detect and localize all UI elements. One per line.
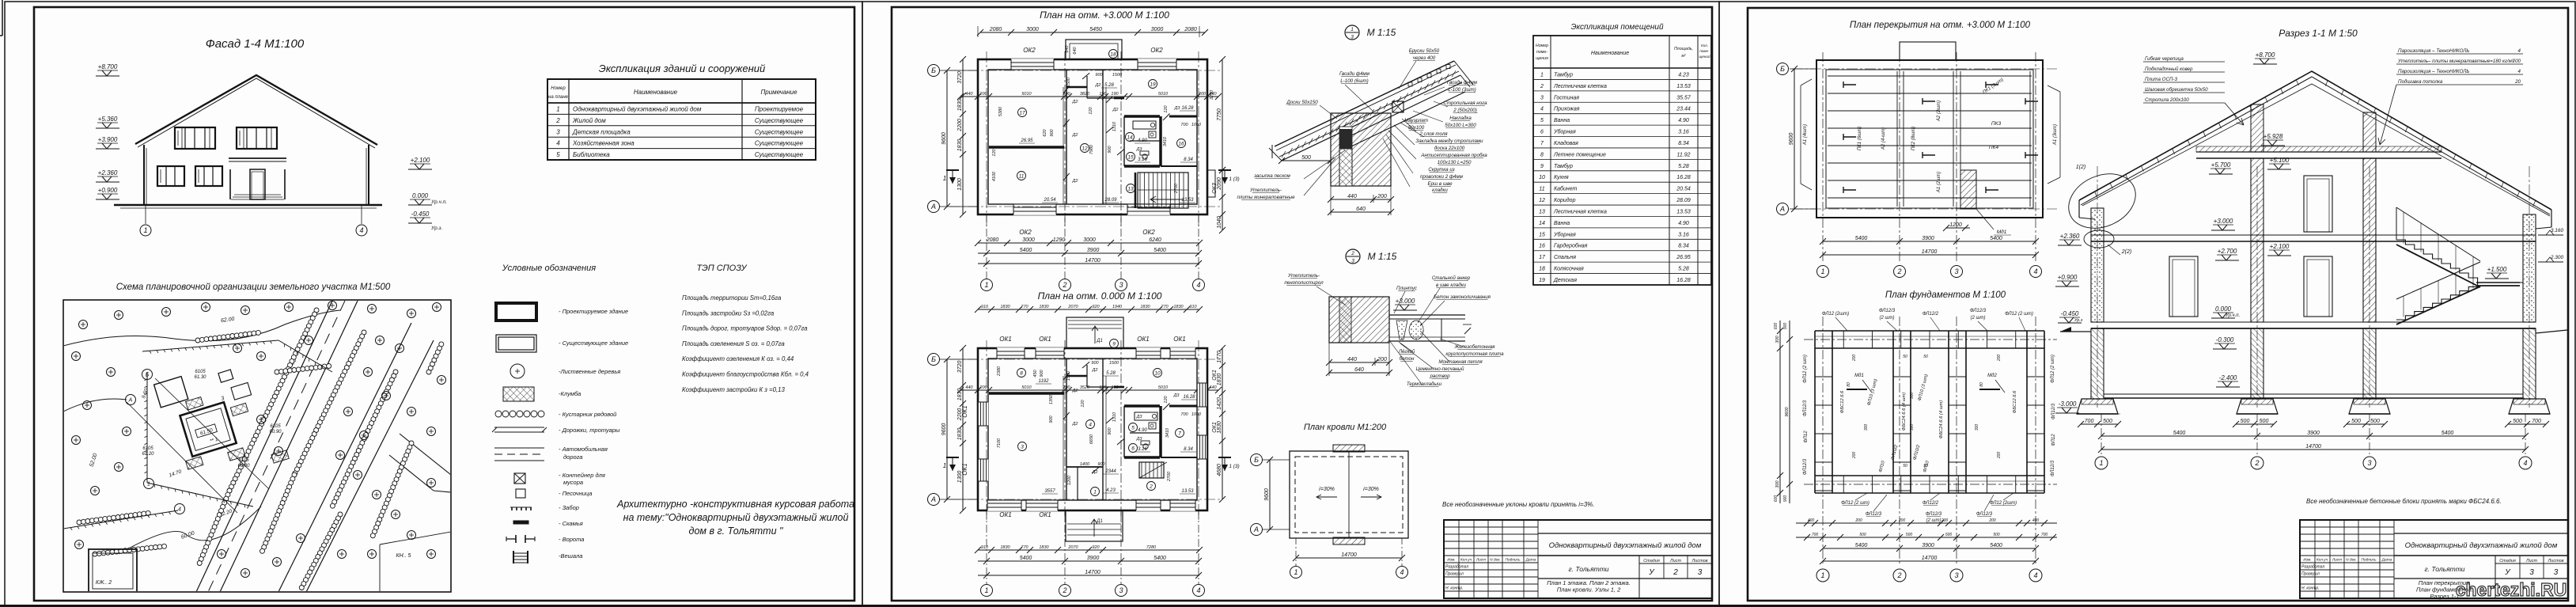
svg-text:50: 50 xyxy=(1923,355,1928,359)
svg-text:4: 4 xyxy=(2033,571,2037,579)
svg-text:3520: 3520 xyxy=(1080,385,1090,390)
svg-text:3: 3 xyxy=(2529,568,2534,577)
svg-text:Прихожая: Прихожая xyxy=(1554,107,1580,112)
svg-text:9: 9 xyxy=(1112,342,1116,347)
svg-text:Подшивка потолка: Подшивка потолка xyxy=(2398,79,2443,85)
svg-text:ОК2: ОК2 xyxy=(1150,47,1163,54)
svg-text:- Песочница: - Песочница xyxy=(559,490,592,497)
svg-text:3720: 3720 xyxy=(957,361,963,374)
svg-text:Существующее: Существующее xyxy=(755,151,804,158)
svg-text:Бруски 50х50: Бруски 50х50 xyxy=(1409,48,1440,54)
stray sheet fragment top-left xyxy=(2,0,3,36)
svg-text:120: 120 xyxy=(992,148,997,156)
svg-text:700: 700 xyxy=(2532,419,2541,424)
svg-text:Лестничная клетка: Лестничная клетка xyxy=(1553,209,1607,214)
svg-text:+3.000: +3.000 xyxy=(1396,298,1415,305)
svg-text:Н. контр.: Н. контр. xyxy=(2301,586,2320,591)
svg-text:Спальня: Спальня xyxy=(1554,255,1576,260)
svg-text:+3.000: +3.000 xyxy=(2214,218,2233,225)
svg-text:5.28: 5.28 xyxy=(1104,83,1114,88)
svg-text:8: 8 xyxy=(1020,371,1023,377)
svg-text:- Скамья: - Скамья xyxy=(559,520,583,527)
svg-text:ОК2: ОК2 xyxy=(1142,229,1155,236)
svg-text:+8.700: +8.700 xyxy=(2256,51,2275,59)
svg-text:190: 190 xyxy=(1111,92,1119,97)
section foundations xyxy=(2077,399,2118,414)
section elevation marks xyxy=(2253,63,2277,65)
svg-text:440: 440 xyxy=(965,92,973,97)
svg-text:5400: 5400 xyxy=(1855,543,1868,548)
svg-text:910: 910 xyxy=(1189,305,1197,309)
svg-text:50: 50 xyxy=(1923,464,1928,469)
svg-text:2: 2 xyxy=(1896,571,1901,579)
svg-text:Доски 50х150: Доски 50х150 xyxy=(1286,100,1318,105)
svg-text:3: 3 xyxy=(1021,445,1024,450)
svg-text:3900: 3900 xyxy=(1922,543,1934,548)
S2: lower floor plan xyxy=(978,348,1207,510)
svg-text:+0.900: +0.900 xyxy=(2058,274,2078,281)
svg-text:200: 200 xyxy=(1377,357,1387,362)
svg-text:61.30: 61.30 xyxy=(194,375,206,380)
section doors xyxy=(2304,176,2332,232)
svg-text:2070: 2070 xyxy=(1067,545,1078,550)
facade axis 4 xyxy=(361,205,362,224)
section wall axis lines xyxy=(2097,166,2098,408)
svg-text:3: 3 xyxy=(1119,281,1123,289)
svg-text:60.90: 60.90 xyxy=(269,430,282,434)
svg-text:ОК1: ОК1 xyxy=(1137,336,1149,343)
svg-text:4: 4 xyxy=(2523,459,2527,467)
legend: waste container xyxy=(514,473,525,484)
svg-text:- Существующее здание: - Существующее здание xyxy=(559,340,628,347)
svg-text:120: 120 xyxy=(1164,104,1169,112)
lower plan section mark right xyxy=(1218,457,1231,458)
legend: tree xyxy=(510,364,525,378)
svg-text:200: 200 xyxy=(979,92,987,97)
svg-text:1: 1 xyxy=(1820,571,1824,579)
svg-text:Проектируемое: Проектируемое xyxy=(755,106,804,113)
svg-text:1(2): 1(2) xyxy=(2076,165,2085,170)
svg-text:6: 6 xyxy=(1131,446,1135,452)
svg-text:ОК1: ОК1 xyxy=(999,336,1011,343)
svg-text:ФЛ12/3: ФЛ12/3 xyxy=(2051,403,2056,419)
svg-text:2 слоя толя: 2 слоя толя xyxy=(1419,131,1448,137)
svg-text:1350: 1350 xyxy=(1049,394,1054,404)
svg-text:Мд2: Мд2 xyxy=(1987,374,1997,378)
svg-text:300: 300 xyxy=(1975,424,1979,431)
svg-text:9: 9 xyxy=(1540,164,1544,169)
svg-text:120: 120 xyxy=(1164,395,1169,403)
svg-text:(2 шт): (2 шт) xyxy=(1926,518,1941,523)
lower plan hall walls xyxy=(1066,466,1103,468)
svg-text:1: 1 xyxy=(984,281,988,289)
svg-text:А1 (3шт): А1 (3шт) xyxy=(2053,124,2058,146)
svg-text:16: 16 xyxy=(1539,244,1545,249)
detail 1 batten marks xyxy=(1408,82,1412,86)
svg-text:Плинтус: Плинтус xyxy=(1396,286,1418,291)
svg-text:-0.450: -0.450 xyxy=(411,211,430,218)
svg-text:Д2: Д2 xyxy=(1092,470,1098,475)
svg-text:Схема планировочной организаци: Схема планировочной организации земельно… xyxy=(116,283,391,292)
svg-text:Разработал: Разработал xyxy=(2301,565,2324,570)
lower plan top porch xyxy=(1066,317,1123,348)
svg-text:200: 200 xyxy=(1997,355,2002,362)
lower plan axis horizontals xyxy=(949,359,1222,360)
foundation axis circles xyxy=(1816,569,1829,582)
svg-text:700: 700 xyxy=(1812,533,1819,537)
svg-text:Стальной анкер: Стальной анкер xyxy=(1432,275,1471,281)
svg-text:Экспликация зданий и сооружени: Экспликация зданий и сооружений xyxy=(599,63,765,74)
svg-text:190: 190 xyxy=(1063,385,1070,390)
svg-text:Одноквартирный двухэтажный жил: Одноквартирный двухэтажный жилой дом xyxy=(2405,541,2558,550)
lower plan door marks xyxy=(1063,373,1070,380)
svg-text:14700: 14700 xyxy=(1922,249,1938,255)
svg-text:200: 200 xyxy=(1988,518,1996,523)
contour 61.00 xyxy=(63,399,127,412)
svg-text:2700: 2700 xyxy=(1167,471,1172,482)
svg-text:11: 11 xyxy=(1539,187,1544,192)
svg-text:400: 400 xyxy=(2032,518,2040,523)
section stair landing xyxy=(2476,282,2520,283)
svg-text:4: 4 xyxy=(556,140,560,147)
svg-text:1: 1 xyxy=(1294,568,1297,576)
svg-text:3: 3 xyxy=(1351,259,1354,264)
svg-text:900: 900 xyxy=(1050,128,1055,136)
svg-text:910: 910 xyxy=(981,305,989,309)
svg-text:пенополистирол: пенополистирол xyxy=(1284,280,1324,286)
svg-text:1940: 1940 xyxy=(1112,305,1123,309)
svg-text:- Контейнер для: - Контейнер для xyxy=(559,472,605,479)
lower plan right dims xyxy=(1222,348,1223,499)
svg-text:4.23: 4.23 xyxy=(1678,72,1689,78)
svg-text:Все необозначенные уклоны кров: Все необозначенные уклоны кровли принять… xyxy=(1442,501,1594,508)
upper plan section mark right xyxy=(1218,169,1231,171)
svg-text:500: 500 xyxy=(2260,419,2269,424)
svg-text:440: 440 xyxy=(1347,194,1357,199)
contour 62.00 xyxy=(63,310,340,346)
slab plan axis lines xyxy=(1822,52,1824,261)
svg-text:100х130 L=250: 100х130 L=250 xyxy=(1438,160,1472,165)
svg-text:1830: 1830 xyxy=(957,99,963,112)
svg-text:1770: 1770 xyxy=(1217,351,1222,363)
svg-text:3900: 3900 xyxy=(2307,431,2320,436)
svg-text:8: 8 xyxy=(1540,152,1544,157)
svg-text:770: 770 xyxy=(1161,305,1169,309)
svg-text:- Дорожки, тротуары: - Дорожки, тротуары xyxy=(559,427,620,434)
svg-text:1 (3): 1 (3) xyxy=(1229,176,1239,182)
svg-text:Закладка между стропилами: Закладка между стропилами xyxy=(1415,138,1483,144)
svg-text:Существующее: Существующее xyxy=(755,117,804,124)
svg-text:2: 2 xyxy=(1062,281,1066,289)
svg-text:3000: 3000 xyxy=(1022,237,1035,243)
svg-text:-Клумба: -Клумба xyxy=(559,390,581,397)
svg-text:Листов: Листов xyxy=(2547,559,2563,563)
svg-text:5010: 5010 xyxy=(1021,92,1032,97)
svg-text:7100: 7100 xyxy=(997,438,1002,448)
svg-text:28.09: 28.09 xyxy=(1676,198,1691,203)
foundation horizontal bands xyxy=(1815,330,2044,332)
svg-text:13.53: 13.53 xyxy=(1181,198,1194,203)
svg-text:4.90: 4.90 xyxy=(1138,428,1147,433)
svg-text:16.28: 16.28 xyxy=(1183,395,1195,400)
lower plan bottom dims xyxy=(978,549,1199,551)
svg-text:дом в г. Тольятти ": дом в г. Тольятти " xyxy=(689,525,783,537)
svg-text:3: 3 xyxy=(1540,95,1544,101)
svg-text:4: 4 xyxy=(1196,586,1200,594)
legend: fence xyxy=(510,506,532,508)
svg-text:450: 450 xyxy=(1033,369,1038,377)
svg-text:Д3: Д3 xyxy=(1174,106,1181,111)
svg-text:18: 18 xyxy=(1539,267,1545,272)
svg-text:м²: м² xyxy=(1681,54,1686,59)
svg-text:1: 1 xyxy=(1820,267,1824,275)
svg-text:1200: 1200 xyxy=(1949,222,1962,228)
lower plan axis Б xyxy=(940,359,978,360)
svg-text:ФЛ12/2: ФЛ12/2 xyxy=(1923,501,1939,506)
lower plan left dims xyxy=(962,348,964,510)
svg-text:19: 19 xyxy=(1150,82,1156,88)
svg-text:Д1: Д1 xyxy=(1096,339,1103,343)
upper plan door marks xyxy=(1063,86,1070,93)
svg-text:поме-: поме- xyxy=(1536,50,1547,55)
svg-text:г. Тольятти: г. Тольятти xyxy=(2424,565,2464,573)
svg-text:А: А xyxy=(1253,525,1259,533)
legend: hangers xyxy=(513,551,514,563)
svg-text:7980: 7980 xyxy=(1089,144,1094,154)
svg-text:N док.: N док. xyxy=(2346,558,2357,563)
section eave boards xyxy=(2078,200,2080,218)
svg-text:50: 50 xyxy=(1903,464,1907,469)
svg-text:А: А xyxy=(930,495,936,503)
svg-text:ФЛ12 (2 шт): ФЛ12 (2 шт) xyxy=(1841,501,1869,506)
svg-text:500: 500 xyxy=(1993,533,2000,537)
svg-text:1830: 1830 xyxy=(957,389,963,401)
svg-text:17: 17 xyxy=(1539,255,1546,260)
svg-text:План перекрытия на отм. +3.000: План перекрытия на отм. +3.000 М 1:100 xyxy=(1850,21,2031,30)
svg-text:8.34: 8.34 xyxy=(1678,141,1689,146)
svg-text:28.09: 28.09 xyxy=(1104,198,1117,203)
svg-text:4.90: 4.90 xyxy=(1678,221,1689,226)
svg-text:Стадия: Стадия xyxy=(2499,559,2516,563)
lower plan axis А xyxy=(940,499,978,500)
svg-text:Утеплитель– плиты минераловатн: Утеплитель– плиты минераловатные=180 кг/… xyxy=(2397,59,2514,64)
section attic floor xyxy=(2196,151,2442,153)
svg-text:-0.300: -0.300 xyxy=(2216,336,2234,343)
svg-text:Стропила 200х100: Стропила 200х100 xyxy=(2145,97,2189,103)
svg-text:3.16: 3.16 xyxy=(1678,232,1689,237)
svg-text:900: 900 xyxy=(1091,361,1099,366)
svg-text:14700: 14700 xyxy=(1085,570,1100,575)
svg-text:А: А xyxy=(1779,205,1785,213)
svg-text:Шаговая обрешетка 50х50: Шаговая обрешетка 50х50 xyxy=(2145,87,2208,93)
upper plan bottom dims xyxy=(978,242,1199,244)
svg-text:3900: 3900 xyxy=(1922,236,1934,241)
S1: site plan frame xyxy=(63,300,451,592)
svg-text:8.34: 8.34 xyxy=(1678,244,1689,249)
svg-text:3820: 3820 xyxy=(1080,92,1090,97)
svg-text:3900: 3900 xyxy=(1087,556,1100,561)
svg-text:i=30%: i=30% xyxy=(1363,487,1379,492)
svg-text:11.92: 11.92 xyxy=(1677,152,1691,157)
svg-text:0.000: 0.000 xyxy=(412,192,429,199)
upper plan axis circles bottom xyxy=(986,214,987,279)
svg-text:Пароизоляция – ТехноНИКОЛЬ: Пароизоляция – ТехноНИКОЛЬ xyxy=(2398,69,2469,74)
svg-text:1060: 1060 xyxy=(1191,123,1202,127)
svg-text:кладки: кладки xyxy=(1432,188,1448,193)
svg-text:Д2: Д2 xyxy=(1092,368,1098,373)
svg-text:1830: 1830 xyxy=(957,139,963,152)
site road A xyxy=(196,301,332,592)
svg-text:1200: 1200 xyxy=(1067,475,1072,485)
svg-text:3720: 3720 xyxy=(957,71,963,84)
svg-text:4: 4 xyxy=(359,226,363,234)
detail 1 wall block xyxy=(1331,113,1391,186)
svg-text:500: 500 xyxy=(2103,419,2112,424)
svg-text:120: 120 xyxy=(1089,106,1093,114)
svg-text:Ванна: Ванна xyxy=(1554,221,1570,226)
svg-text:12: 12 xyxy=(1082,146,1088,152)
svg-text:Скрутка из: Скрутка из xyxy=(1428,167,1454,173)
svg-text:200: 200 xyxy=(1198,92,1207,97)
svg-text:Д2: Д2 xyxy=(1072,100,1078,104)
svg-text:План фундаментов М 1:100: План фундаментов М 1:100 xyxy=(1885,290,2006,300)
svg-text:Номер: Номер xyxy=(1536,44,1548,48)
svg-text:3410: 3410 xyxy=(1163,136,1168,146)
svg-text:1192: 1192 xyxy=(1039,379,1050,384)
svg-text:4: 4 xyxy=(1540,107,1544,112)
svg-text:770: 770 xyxy=(1021,305,1029,309)
foundation axis dashdot xyxy=(1822,317,1824,563)
svg-text:13.53: 13.53 xyxy=(1181,489,1194,494)
svg-text:50х100: 50х100 xyxy=(1408,125,1425,131)
svg-text:- Кустарник рядовой: - Кустарник рядовой xyxy=(559,411,617,418)
svg-text:+5.928: +5.928 xyxy=(2263,133,2283,140)
svg-text:500: 500 xyxy=(1301,155,1311,161)
svg-text:6650: 6650 xyxy=(1089,434,1094,444)
svg-text:Хозяйственная зона: Хозяйственная зона xyxy=(572,140,635,147)
section roof xyxy=(2079,71,2551,210)
svg-text:2700: 2700 xyxy=(1174,183,1179,194)
svg-text:1310: 1310 xyxy=(1112,121,1117,131)
svg-text:9600: 9600 xyxy=(941,132,947,145)
svg-text:План на отм. 0.000 М 1:100: План на отм. 0.000 М 1:100 xyxy=(1038,290,1162,302)
svg-text:Н. контр.: Н. контр. xyxy=(1445,586,1464,591)
svg-text:1400: 1400 xyxy=(1080,462,1090,467)
svg-text:1500: 1500 xyxy=(1066,370,1071,381)
svg-text:15: 15 xyxy=(1127,155,1134,161)
svg-text:Железобетонная: Железобетонная xyxy=(1454,344,1496,350)
svg-text:Экспликация помещений: Экспликация помещений xyxy=(1570,23,1664,32)
svg-text:900: 900 xyxy=(1049,415,1054,423)
svg-text:Кол.уч: Кол.уч xyxy=(1460,558,1472,563)
svg-text:ФЛ12/3: ФЛ12/3 xyxy=(1879,309,1896,313)
svg-text:190: 190 xyxy=(1099,92,1107,97)
svg-text:5400: 5400 xyxy=(1990,543,2002,548)
section axis circles xyxy=(2101,414,2102,456)
svg-text:620: 620 xyxy=(1043,128,1047,136)
svg-text:3900: 3900 xyxy=(1087,248,1100,253)
slab bracket left xyxy=(1801,79,1812,85)
site road C fork right xyxy=(400,434,451,475)
upper plan section mark left xyxy=(946,169,959,171)
svg-text:Изм.: Изм. xyxy=(2303,558,2311,563)
svg-text:2: 2 xyxy=(555,117,560,124)
svg-text:ПК1 (6шт): ПК1 (6шт) xyxy=(1858,127,1862,150)
svg-text:5.28: 5.28 xyxy=(1678,267,1689,272)
svg-text:ФЛ12 (2шт): ФЛ12 (2шт) xyxy=(1822,312,1849,317)
site trees xyxy=(79,321,88,329)
svg-text:ОК2: ОК2 xyxy=(1019,229,1032,236)
slab plan axis circles xyxy=(1790,68,1816,70)
svg-text:Одноквартирный двухэтажный жил: Одноквартирный двухэтажный жилой дом xyxy=(573,106,702,113)
upper plan left dims xyxy=(962,59,964,214)
svg-text:А2 (4-шт): А2 (4-шт) xyxy=(1881,127,1886,150)
svg-text:14700: 14700 xyxy=(1085,258,1100,264)
roof plan axes xyxy=(1263,459,1290,461)
svg-text:-0.450: -0.450 xyxy=(2061,310,2079,317)
svg-text:Тамбур: Тамбур xyxy=(1554,71,1573,78)
svg-text:1040: 1040 xyxy=(1217,216,1222,229)
svg-text:300: 300 xyxy=(1775,335,1780,343)
svg-text:Площадь,: Площадь, xyxy=(1674,47,1693,51)
svg-text:Тамбур: Тамбур xyxy=(1554,163,1573,169)
svg-text:7: 7 xyxy=(1178,431,1181,437)
svg-text:Уборная: Уборная xyxy=(1553,129,1576,135)
svg-text:+5.100: +5.100 xyxy=(2270,157,2290,164)
detail 2 wall xyxy=(1329,297,1389,343)
svg-text:дорога: дорога xyxy=(563,453,582,461)
svg-text:i=30%: i=30% xyxy=(1319,487,1335,492)
svg-text:13.53: 13.53 xyxy=(1676,84,1691,89)
upper plan axis А xyxy=(940,206,978,207)
svg-text:1: 1 xyxy=(2099,459,2103,467)
svg-text:500: 500 xyxy=(2370,419,2380,424)
section basement walls bottom line xyxy=(2080,413,2120,415)
S1: facade house xyxy=(135,75,377,145)
lower plan top dims xyxy=(978,309,1199,310)
upper plan right dims xyxy=(1222,59,1223,170)
svg-text:+5.700: +5.700 xyxy=(2211,161,2231,169)
svg-text:Антисептированная пробка: Антисептированная пробка xyxy=(1420,153,1487,158)
section right marks xyxy=(2538,234,2563,236)
svg-text:на плане: на плане xyxy=(548,95,569,100)
svg-text:3: 3 xyxy=(1119,586,1123,594)
svg-text:20.54: 20.54 xyxy=(1043,198,1056,203)
svg-text:Жилой дом: Жилой дом xyxy=(572,117,606,124)
svg-text:2: 2 xyxy=(1540,84,1544,89)
svg-text:ОК1: ОК1 xyxy=(999,511,1011,518)
svg-text:16.28: 16.28 xyxy=(1181,106,1194,111)
svg-text:19: 19 xyxy=(1539,278,1545,283)
svg-text:4.90: 4.90 xyxy=(1678,118,1689,123)
svg-text:Ванна: Ванна xyxy=(1554,118,1570,123)
svg-text:200: 200 xyxy=(1852,452,1857,460)
site axis circles xyxy=(142,370,153,380)
detail 1 leaders xyxy=(1399,61,1416,89)
svg-text:2344: 2344 xyxy=(1104,469,1116,474)
svg-text:Кухня: Кухня xyxy=(1554,175,1569,180)
svg-text:Гардеробная: Гардеробная xyxy=(1554,243,1588,249)
svg-text:1830: 1830 xyxy=(1217,374,1222,386)
svg-text:(2 шт): (2 шт) xyxy=(1971,316,1986,321)
svg-text:1420: 1420 xyxy=(1217,397,1222,410)
svg-text:М 1:15: М 1:15 xyxy=(1368,251,1397,262)
S3: slab plan xyxy=(1816,60,2043,218)
svg-text:10: 10 xyxy=(1154,371,1161,377)
svg-text:500: 500 xyxy=(1859,533,1866,537)
svg-text:Лист: Лист xyxy=(1476,558,1486,563)
svg-text:20.54: 20.54 xyxy=(1676,187,1691,192)
